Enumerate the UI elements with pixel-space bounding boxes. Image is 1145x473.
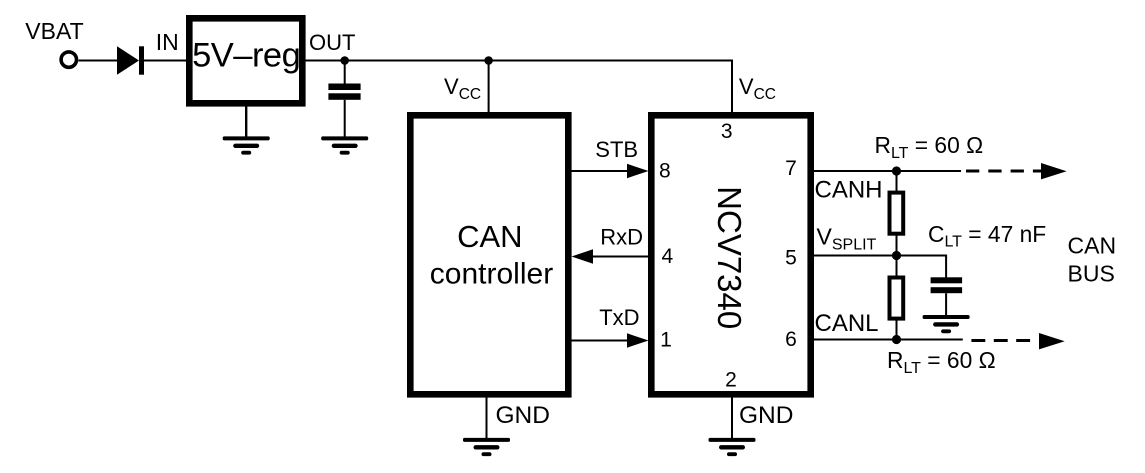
svg-text:RLT = 60 Ω: RLT = 60 Ω (875, 132, 984, 162)
svg-text:GND: GND (739, 402, 793, 429)
CAN controller box (410, 115, 568, 394)
diode D1 (117, 46, 144, 74)
svg-text:3: 3 (721, 120, 733, 143)
svg-text:VBAT: VBAT (25, 18, 83, 44)
CAN controller label line 2 (430, 258, 553, 291)
wire CAN controller to ground (486, 394, 488, 439)
pin number 7 (785, 157, 797, 180)
wire C2 to ground (945, 293, 947, 316)
signal label RxD (600, 224, 643, 249)
value label RLT bottom (887, 347, 996, 377)
pin number 4 (661, 245, 673, 268)
wire rail corner down to NCV7340 pin 3 (731, 60, 733, 114)
CAN controller label line 1 (457, 219, 522, 254)
ground below C1 (321, 136, 368, 154)
value label CLT (928, 221, 1046, 251)
wire VBAT to diode (78, 60, 118, 62)
svg-text:RxD: RxD (600, 224, 643, 249)
net label CANH (815, 176, 883, 203)
svg-text:TxD: TxD (599, 305, 639, 330)
wire CANL pin 6 (811, 339, 963, 341)
svg-text:7: 7 (785, 157, 797, 180)
svg-text:CLT = 47 nF: CLT = 47 nF (928, 221, 1046, 251)
resistor R1 (890, 193, 904, 234)
label CAN BUS line 2 (1068, 261, 1115, 287)
svg-text:BUS: BUS (1068, 261, 1115, 287)
ground below regulator (223, 136, 270, 154)
value label RLT top (875, 132, 984, 162)
wire R2 to CANL junction (896, 318, 898, 340)
svg-text:VSPLIT: VSPLIT (817, 224, 877, 254)
junction CANL (892, 335, 901, 344)
wire branch down to CAN controller VCC (488, 61, 490, 114)
wire junction to C1 (344, 61, 346, 85)
pin number 1 (660, 328, 672, 351)
net label VSPLIT (817, 224, 877, 254)
net label VCC (NCV7340) (739, 74, 776, 103)
label CAN BUS line 1 (1068, 233, 1117, 259)
junction VSPLIT (892, 251, 901, 260)
net label VCC (CAN controller) (444, 74, 481, 103)
arrowhead STB into pin 8 (627, 164, 649, 178)
wire diode to regulator IN (144, 60, 187, 62)
svg-text:5: 5 (785, 247, 797, 270)
ground below NCV7340 (709, 438, 756, 456)
value label 5V-reg (192, 37, 300, 75)
wire R1 to VSPLIT junction (896, 234, 898, 256)
transceiver U2 NCV7340 box (651, 115, 810, 394)
wire VSPLIT pin 5 (811, 255, 946, 257)
junction at C1 (340, 56, 349, 65)
ground below C2 (923, 315, 970, 333)
svg-text:1: 1 (660, 328, 672, 351)
svg-text:5V–reg: 5V–reg (192, 37, 300, 75)
pin number 8 (659, 160, 671, 183)
wire STB (571, 170, 630, 172)
regulator U1 5V-reg box (189, 18, 302, 103)
wire NCV7340 to ground (731, 394, 733, 439)
svg-text:6: 6 (785, 328, 797, 351)
dashed bus CANH (966, 170, 1046, 173)
capacitor C1 (328, 84, 360, 100)
arrowhead CANH bus (1041, 163, 1067, 179)
arrowhead CANL bus (1039, 333, 1065, 349)
resistor R2 (890, 278, 904, 319)
wire C1 to ground (344, 100, 346, 138)
svg-text:CAN: CAN (1068, 233, 1117, 259)
junction CANH (892, 166, 901, 175)
wire VSPLIT rail corner down to C2 (945, 255, 947, 279)
pin label GND (NCV7340) (739, 402, 793, 429)
arrowhead TxD into pin 1 (627, 333, 649, 347)
pin number 6 (785, 328, 797, 351)
capacitor C2 CLT (931, 277, 963, 293)
wire regulator to ground (245, 103, 247, 138)
net label CANL (815, 310, 879, 337)
wire VSPLIT to R2 (896, 256, 898, 278)
svg-text:VCC: VCC (739, 74, 776, 103)
svg-text:IN: IN (156, 29, 179, 55)
signal label STB (595, 137, 638, 162)
node VBAT label (25, 18, 83, 44)
svg-text:4: 4 (661, 245, 673, 268)
ground below CAN controller (463, 438, 510, 456)
pin label IN (156, 29, 179, 55)
svg-text:CAN: CAN (457, 219, 522, 254)
wire RxD (590, 256, 649, 258)
wire TxD (571, 340, 630, 342)
svg-text:2: 2 (725, 369, 737, 392)
part label NCV7340 (rotated) (711, 186, 748, 329)
svg-text:NCV7340: NCV7340 (711, 186, 748, 329)
svg-text:CANH: CANH (815, 176, 883, 203)
svg-text:CANL: CANL (815, 310, 879, 337)
terminal VBAT (61, 52, 76, 67)
arrowhead RxD into controller (572, 249, 594, 263)
svg-text:STB: STB (595, 137, 638, 162)
wire CANH pin 7 (811, 170, 961, 172)
svg-text:GND: GND (496, 402, 550, 429)
pin number 3 (721, 120, 733, 143)
pin label GND (controller) (496, 402, 550, 429)
signal label TxD (599, 305, 639, 330)
wire CANH junction to R1 (896, 171, 898, 192)
pin number 2 (725, 369, 737, 392)
svg-text:8: 8 (659, 160, 671, 183)
junction at VCC branch (484, 56, 493, 65)
svg-text:controller: controller (430, 258, 553, 291)
svg-text:RLT = 60 Ω: RLT = 60 Ω (887, 347, 996, 377)
svg-text:OUT: OUT (309, 30, 355, 55)
pin label OUT (309, 30, 355, 55)
svg-text:VCC: VCC (444, 74, 481, 103)
dashed bus CANL (971, 339, 1035, 342)
pin number 5 (785, 247, 797, 270)
wire regulator OUT to VCC rail (306, 60, 734, 62)
